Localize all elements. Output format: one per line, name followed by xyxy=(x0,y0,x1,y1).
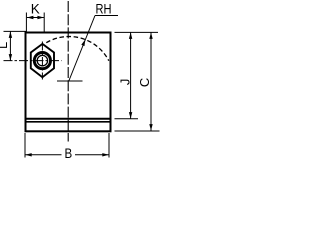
inner slot line upper xyxy=(25,118,112,120)
L dimension top extension line xyxy=(4,30,27,32)
B dimension line left segment xyxy=(25,154,61,156)
C dimension line xyxy=(150,32,152,130)
part outline (bracket body) xyxy=(26,33,111,132)
C down arrowhead xyxy=(149,124,152,131)
B dimension right extension line xyxy=(108,133,110,158)
B dimension left extension line xyxy=(24,133,26,158)
nut inner hole circle xyxy=(37,55,47,65)
svg-text:B: B xyxy=(64,145,72,161)
RH leader arrowhead on arc xyxy=(81,39,85,46)
svg-text:K: K xyxy=(31,1,41,17)
B dimension line right segment xyxy=(75,154,109,156)
nut vertical centerline xyxy=(41,42,43,80)
hex nut outline xyxy=(31,44,54,77)
L dimension line xyxy=(9,31,11,60)
arc center horizontal centerline xyxy=(57,80,83,82)
svg-text:C: C xyxy=(137,78,152,87)
J dimension line xyxy=(130,32,132,118)
L up arrowhead xyxy=(9,31,12,38)
nut thread ring (thick circle) xyxy=(34,53,50,69)
RH radius leader line xyxy=(69,16,95,82)
nut horizontal centerline xyxy=(4,60,62,62)
C up arrowhead xyxy=(149,32,152,39)
top right extension line xyxy=(115,31,159,33)
swing arc (dashed, radius RH) xyxy=(46,37,109,61)
J down arrowhead xyxy=(129,112,132,119)
svg-text:L: L xyxy=(0,42,10,49)
J up arrowhead xyxy=(129,32,132,39)
C bottom extension line xyxy=(115,130,160,132)
svg-text:J: J xyxy=(117,79,132,86)
part vertical centerline xyxy=(67,1,69,142)
B right arrowhead xyxy=(102,153,109,156)
K dimension right extension line xyxy=(43,13,45,33)
J bottom extension line xyxy=(115,118,139,120)
inner slot line lower xyxy=(25,121,112,123)
K dimension line xyxy=(27,17,44,19)
RH label underline xyxy=(95,15,118,17)
K dimension left extension line xyxy=(25,13,27,33)
L down arrowhead xyxy=(9,54,12,61)
K left arrowhead xyxy=(27,16,34,19)
K right arrowhead xyxy=(37,16,44,19)
svg-text:RH: RH xyxy=(96,0,112,16)
B left arrowhead xyxy=(25,153,32,156)
